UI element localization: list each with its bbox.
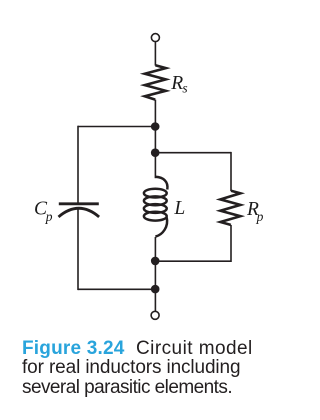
- label Rp: [246, 199, 264, 224]
- svg-text:L: L: [173, 198, 185, 219]
- node C (junction dot, bottom of Rp branch): [151, 257, 160, 266]
- terminal: top port: [151, 34, 159, 42]
- svg-text:p: p: [256, 209, 264, 224]
- label Cp: [34, 198, 53, 223]
- wire: top lead to Rs: [154, 42, 156, 66]
- wire: node D to bottom terminal: [154, 289, 156, 311]
- wire: node B to inductor L: [154, 153, 156, 178]
- wire: left branch bottom horizontal: [78, 288, 155, 290]
- resistor Rp: [220, 191, 240, 225]
- svg-text:R: R: [170, 73, 183, 94]
- wire: right branch bottom horizontal: [155, 260, 231, 262]
- wire: node C to node D: [154, 261, 156, 289]
- inductor L: [144, 177, 168, 237]
- svg-text:p: p: [45, 209, 53, 224]
- wire: right branch upper vertical: [230, 152, 232, 191]
- wire: right branch lower vertical: [230, 225, 232, 262]
- svg-text:s: s: [182, 80, 187, 95]
- terminal: bottom port: [151, 311, 159, 319]
- wire: left branch lower vertical: [77, 210, 79, 291]
- capacitor Cp: [59, 204, 100, 217]
- wire: left branch top horizontal: [78, 126, 155, 128]
- node A (junction dot, top of Cp branch): [151, 122, 160, 131]
- wire: Rs to node B (through node A): [154, 100, 156, 153]
- node D (junction dot, bottom of Cp branch): [151, 285, 160, 294]
- label Rs: [170, 73, 187, 95]
- node B (junction dot, top of Rp branch): [151, 148, 160, 157]
- wire: right branch top horizontal: [155, 152, 231, 154]
- resistor Rs: [145, 65, 166, 99]
- wire: left branch upper vertical: [77, 126, 79, 203]
- figure caption: [22, 339, 302, 397]
- wire: inductor L to node C: [154, 237, 156, 261]
